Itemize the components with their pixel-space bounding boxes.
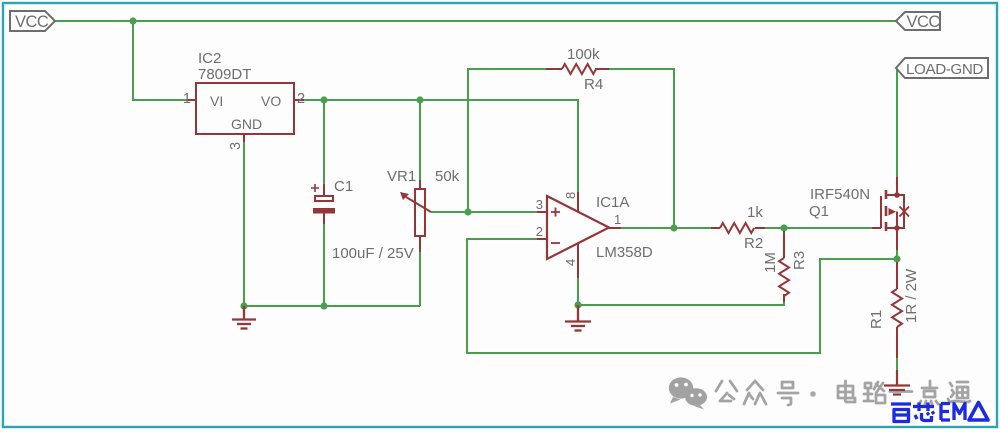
glyph zhong (744, 381, 766, 404)
wire R2 right to R3 node (765, 227, 784, 229)
svg-text:VCC: VCC (907, 13, 941, 31)
wire wiper to pin3 of opamp (431, 211, 537, 213)
svg-text:VCC: VCC (15, 13, 49, 31)
svg-text:VO: VO (261, 93, 281, 109)
wire R1 bottom (896, 358, 898, 371)
svg-text:100uF / 25V: 100uF / 25V (332, 245, 414, 262)
svg-text:Q1: Q1 (809, 203, 829, 220)
capacitor C1 (311, 178, 414, 262)
svg-text:VI: VI (210, 93, 223, 109)
glyph xin (core) (913, 403, 934, 421)
svg-text:8: 8 (563, 192, 578, 199)
wire opamp output (621, 227, 711, 229)
resistor R1 (868, 262, 920, 358)
wire load-gnd drain (896, 68, 898, 177)
svg-text:VR1: VR1 (387, 168, 416, 185)
svg-text:C1: C1 (334, 178, 353, 195)
IC2 7809DT regulator (183, 50, 305, 150)
wire R3 bottom to ground (578, 301, 784, 305)
glyph lu (road) (864, 382, 885, 403)
ground under IC2 (232, 306, 256, 329)
node R2/R3/gate (780, 224, 787, 231)
svg-text:3: 3 (228, 142, 244, 150)
resistor R2 (711, 204, 765, 252)
wire VR1 top (419, 100, 421, 180)
node output (670, 224, 677, 231)
glyph yi (one, behind ground) (890, 390, 912, 393)
resistor R3 (762, 231, 808, 302)
wire ground bus bottom left (244, 305, 420, 307)
svg-text:1k: 1k (747, 204, 763, 221)
node VR1 top (416, 96, 423, 103)
wire IC2 pin3 down (243, 142, 245, 306)
node source/R1/sense (893, 255, 900, 262)
node feedback/pin3 (464, 208, 471, 215)
wire opamp pin4 ground (577, 278, 579, 305)
watermark text strokes (hand-drawn CJK) (716, 381, 970, 405)
svg-text:IRF540N: IRF540N (810, 186, 870, 203)
node C1 top (320, 96, 327, 103)
svg-text:LM358D: LM358D (596, 244, 653, 261)
logo BaiXin EMA blue (891, 403, 988, 422)
svg-text:GND: GND (231, 116, 262, 132)
ground under R1 (884, 370, 910, 395)
svg-text:100k: 100k (567, 46, 600, 63)
wire VCC drop to IC2 pin1 (133, 21, 187, 100)
svg-text:R4: R4 (584, 76, 603, 93)
op-amp IC1A LM358D (536, 192, 653, 278)
wire R4 right to output (609, 69, 674, 228)
svg-text:IC1A: IC1A (596, 194, 629, 211)
glyph hao (778, 382, 798, 405)
node pin4 gnd (574, 301, 581, 308)
resistor R4 (546, 46, 609, 93)
svg-text:1: 1 (614, 212, 621, 227)
glyph dian4 (electric) (838, 381, 855, 402)
svg-text:2: 2 (297, 91, 305, 107)
svg-text:3: 3 (536, 197, 543, 212)
wire source to R1 (896, 250, 898, 262)
letter M (954, 404, 965, 421)
VCC flag left (10, 11, 55, 31)
potentiometer VR1 (387, 168, 460, 252)
VCC flag right (896, 12, 940, 31)
wire VCC top bus (55, 20, 896, 22)
node VCC bus (129, 17, 136, 24)
wire VO bus to pin8 (304, 100, 578, 192)
ground under op-amp pin4 (565, 305, 591, 331)
glyph tong (through) (948, 382, 970, 402)
wire C1 top (323, 100, 325, 184)
svg-text:7809DT: 7809DT (198, 66, 251, 83)
node gnd bus at IC2 (240, 302, 247, 309)
svg-text:50k: 50k (435, 168, 460, 185)
svg-text:2: 2 (536, 224, 543, 239)
svg-text:R2: R2 (744, 235, 763, 252)
letter E (941, 404, 950, 421)
svg-text:1R / 2W: 1R / 2W (903, 268, 920, 323)
wire VR1 bottom (419, 252, 421, 306)
svg-text:1M: 1M (762, 252, 779, 273)
wire sense net pin2 (467, 239, 897, 353)
svg-text:R1: R1 (868, 310, 885, 329)
svg-text:R3: R3 (791, 251, 808, 270)
watermark wechat icon (669, 377, 707, 409)
glyph gong (716, 381, 737, 401)
svg-text:1: 1 (183, 91, 191, 107)
wire gate (784, 227, 872, 229)
glyph bai (hundred) (891, 404, 911, 422)
letter A as triangle (969, 403, 988, 421)
LOAD-GND flag (896, 58, 988, 78)
glyph dian3 (point) (919, 381, 938, 404)
svg-text:4: 4 (563, 259, 578, 266)
svg-text:IC2: IC2 (198, 50, 221, 67)
middle dot (810, 391, 816, 397)
MOSFET Q1 IRF540N (872, 177, 909, 250)
wire feedback loop R4 (468, 69, 546, 212)
svg-text:LOAD-GND: LOAD-GND (906, 61, 983, 78)
wire C1 bottom (323, 224, 325, 306)
node gnd bus at C1 (320, 302, 327, 309)
